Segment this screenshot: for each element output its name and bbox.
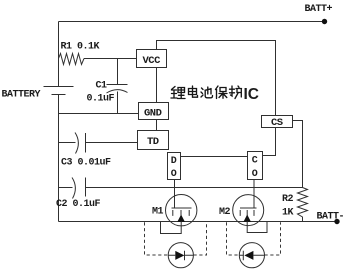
svg-text:O: O bbox=[252, 169, 258, 180]
wire dashed body-diode loop D2 bbox=[227, 222, 281, 255]
wire rail to C3 bbox=[59, 142, 76, 144]
wire bottom BATT- rail bbox=[59, 221, 338, 223]
op-amp U1 pin CO bbox=[248, 152, 263, 181]
label C1 bbox=[96, 81, 108, 92]
svg-text:O: O bbox=[171, 169, 177, 180]
svg-text:CS: CS bbox=[271, 117, 283, 129]
label M1 bbox=[152, 207, 164, 218]
op-amp U1 pin GND bbox=[139, 103, 169, 120]
label R2 bbox=[282, 194, 294, 205]
capacitor C1 bbox=[107, 85, 128, 94]
wire DO to CO bbox=[181, 156, 248, 158]
svg-text:BATT-: BATT- bbox=[317, 212, 345, 223]
svg-text:1K: 1K bbox=[282, 207, 294, 218]
capacitor C3 bbox=[75, 133, 86, 154]
svg-text:IC: IC bbox=[244, 86, 260, 103]
label R1 0.1K bbox=[61, 42, 100, 53]
transistor M1 bbox=[166, 195, 197, 226]
label C2 0.1uF bbox=[56, 199, 101, 210]
svg-text:C: C bbox=[252, 156, 258, 167]
wire top BATT+ rail bbox=[59, 21, 325, 23]
battery BT1 bbox=[44, 87, 74, 95]
wire C3 to TD bbox=[86, 142, 138, 144]
svg-text:GND: GND bbox=[144, 108, 162, 120]
svg-text:C2 0.1uF: C2 0.1uF bbox=[56, 199, 101, 210]
wire left rail bbox=[58, 22, 60, 222]
wire dashed body-diode loop D1 bbox=[145, 222, 207, 255]
label M2 bbox=[219, 207, 231, 218]
op-amp U1 pin TD bbox=[138, 131, 169, 150]
svg-text:BATT+: BATT+ bbox=[305, 4, 333, 15]
label IC bbox=[244, 86, 260, 103]
diode D1 bbox=[168, 243, 193, 268]
wire M1 source loop bbox=[161, 222, 182, 234]
svg-text:C1: C1 bbox=[96, 81, 108, 92]
wire DO to M1 gate bbox=[174, 180, 176, 209]
node BATT- dot bbox=[334, 219, 339, 224]
wire rail to GND bbox=[59, 113, 139, 115]
wire junction down to C1 bbox=[117, 59, 119, 85]
svg-text:D: D bbox=[171, 156, 177, 167]
wire CS bottom to CO right bbox=[263, 128, 276, 156]
op-amp U1 pin DO bbox=[168, 153, 181, 181]
resistor R1 bbox=[59, 54, 85, 65]
label BATTERY bbox=[2, 90, 41, 101]
transistor M2 bbox=[233, 195, 264, 226]
label 锂电池保护IC bbox=[171, 86, 242, 99]
wire C2 to R2 node bbox=[86, 187, 303, 189]
label 0.1uF (C1) bbox=[87, 94, 115, 105]
svg-text:0.1uF: 0.1uF bbox=[87, 94, 115, 105]
resistor R2 bbox=[298, 188, 308, 222]
label 1K bbox=[282, 207, 294, 218]
svg-text:BATTERY: BATTERY bbox=[2, 90, 41, 101]
label BATT- bbox=[317, 212, 345, 223]
wire R1 to VCC bbox=[84, 58, 137, 60]
svg-text:VCC: VCC bbox=[143, 55, 162, 67]
diode D2 bbox=[239, 243, 264, 268]
wire rail to C2 bbox=[59, 187, 73, 189]
wire C1 to GND line bbox=[117, 92, 119, 114]
op-amp U1 pin VCC bbox=[137, 50, 167, 68]
wire CO to M2 gate bbox=[253, 180, 255, 209]
svg-text:M2: M2 bbox=[219, 207, 231, 218]
label C3 0.01uF bbox=[61, 158, 111, 169]
wire VCC to GND bbox=[156, 68, 158, 103]
wire VCC top riser bbox=[157, 41, 276, 116]
op-amp U1 pin CS bbox=[262, 116, 293, 130]
wire GND to TD bbox=[156, 120, 158, 131]
wire M2 source loop bbox=[247, 222, 267, 233]
capacitor C2 bbox=[72, 178, 86, 199]
svg-text:C3 0.01uF: C3 0.01uF bbox=[61, 158, 111, 169]
node BATT+ dot bbox=[322, 19, 327, 24]
label BATT+ bbox=[305, 4, 333, 15]
svg-text:TD: TD bbox=[147, 136, 159, 148]
svg-text:R1 0.1K: R1 0.1K bbox=[61, 42, 100, 53]
wire CS right to R2 bbox=[293, 121, 303, 188]
svg-text:M1: M1 bbox=[152, 207, 164, 218]
svg-text:R2: R2 bbox=[282, 194, 294, 205]
